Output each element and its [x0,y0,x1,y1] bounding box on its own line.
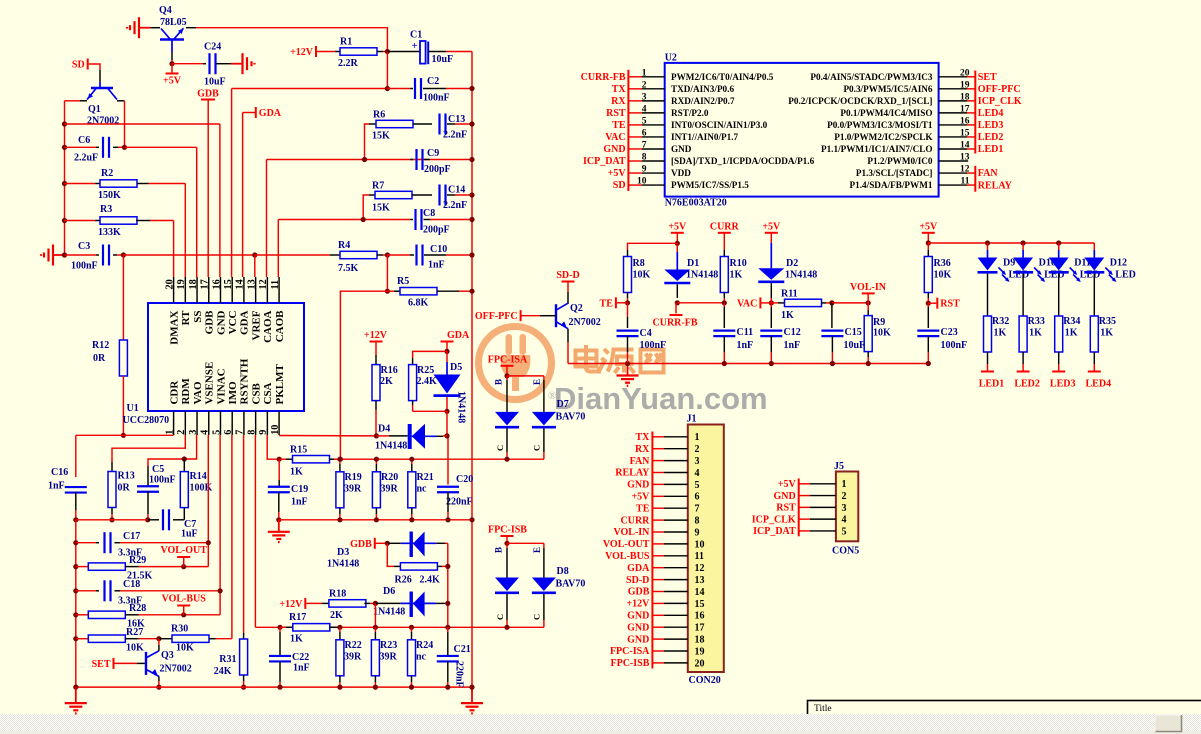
wire [377,254,383,256]
svg-text:GDA: GDA [627,563,650,574]
svg-text:+5V: +5V [608,168,627,179]
node [504,625,509,630]
svg-text:78L05: 78L05 [160,17,187,28]
svg-text:C18: C18 [123,579,140,590]
wire [151,27,161,29]
pin 16 LED3 [939,124,967,126]
svg-text:3: 3 [842,503,847,514]
node LED2 [1022,364,1024,372]
svg-text:1K: 1K [1065,328,1078,339]
pin 11 RELAY [939,184,967,186]
node [469,86,474,91]
svg-text:1nF: 1nF [428,260,445,271]
node [374,457,379,462]
node [469,217,474,222]
wire [125,146,197,148]
svg-text:LED2: LED2 [978,132,1004,143]
svg-text:10K: 10K [934,270,952,281]
svg-text:GND: GND [627,622,649,633]
svg-text:2: 2 [642,80,647,90]
svg-text:P0.2/ICPCK/OCDCK/RXD_1/[SCL]: P0.2/ICPCK/OCDCK/RXD_1/[SCL] [788,96,932,106]
svg-text:1N4148: 1N4148 [327,559,359,570]
pin 8 CSB [255,411,257,435]
wire R17 row [374,603,376,627]
node [73,685,78,690]
pin 18 SS [196,277,198,303]
pin 1 CURR-FB [628,76,642,78]
node [73,636,78,641]
svg-text:IMO: IMO [227,381,239,405]
svg-text:+5V: +5V [163,76,182,87]
svg-text:100nF: 100nF [640,340,667,351]
capacitor C19 1nF [278,459,280,480]
svg-text:7: 7 [235,430,246,435]
capacitor C16 1nF [65,486,87,488]
resistor R33 1K [1019,316,1027,352]
svg-text:2N7002: 2N7002 [87,116,119,127]
svg-text:1K: 1K [1100,328,1113,339]
svg-text:100K: 100K [190,483,213,494]
pin 20 SET [939,76,967,78]
wire gnd column 472 [471,52,473,688]
wire U2 left pin tick bar [627,70,629,191]
svg-text:VAC: VAC [737,298,757,309]
svg-text:7: 7 [642,140,647,150]
svg-text:E: E [532,379,542,385]
svg-text:100nF: 100nF [71,261,98,272]
capacitor C17 3.3nF [76,542,96,544]
svg-text:LED1: LED1 [979,379,1005,390]
wire pin6 IMO column [231,435,233,639]
svg-text:R24: R24 [416,640,433,651]
resistor R35 1K [1090,316,1098,352]
svg-text:10K: 10K [126,643,144,654]
svg-text:16: 16 [211,279,222,289]
resistor R10 1K [723,250,725,257]
svg-text:2.2uF: 2.2uF [74,153,98,164]
node [385,252,390,257]
LED D9 [985,240,990,245]
node [182,456,187,461]
svg-text:U1: U1 [127,403,139,414]
svg-text:20: 20 [164,279,175,289]
svg-text:2N7002: 2N7002 [569,317,601,328]
svg-text:N76E003AT20: N76E003AT20 [665,198,727,209]
wire pin11 column [277,220,279,278]
svg-text:TE: TE [600,298,614,309]
svg-text:U2: U2 [665,53,677,64]
svg-text:5: 5 [842,526,847,537]
ground [53,254,65,256]
svg-text:RT: RT [180,310,192,326]
svg-text:R12: R12 [92,340,109,351]
svg-text:1K: 1K [781,310,794,321]
node [62,121,67,126]
svg-text:GND: GND [627,634,649,645]
pin 9 CSA [266,411,268,435]
svg-text:19: 19 [960,80,970,90]
pin 12 FAN [939,172,967,174]
pin 14 LED1 [939,148,967,150]
svg-text:CURR-FB: CURR-FB [581,72,626,83]
svg-text:ICP_CLK: ICP_CLK [752,514,796,525]
node [409,517,414,522]
svg-text:10uF: 10uF [204,77,226,88]
pin 5 TE [628,124,642,126]
capacitor C24 [208,53,210,74]
node [722,300,727,305]
wire [443,435,447,437]
pin 2 TX [628,88,642,90]
diode D6 1N4148 [375,602,400,604]
svg-text:VOL-OUT: VOL-OUT [160,545,207,556]
node [206,540,211,545]
node LED4 [1093,364,1095,372]
svg-text:18: 18 [695,635,705,646]
wire [413,123,432,125]
wire [117,100,125,102]
svg-text:R36: R36 [934,258,951,269]
node [445,564,450,569]
svg-text:6: 6 [642,128,647,138]
svg-text:OFF-PFC: OFF-PFC [475,311,518,322]
svg-text:GDB: GDB [350,539,372,550]
title block [808,701,1201,734]
transistor Q2 2N7002 [555,304,557,327]
node [409,625,414,630]
svg-text:1: 1 [695,432,700,443]
capacitor C15 10uF [831,303,833,328]
svg-text:R4: R4 [338,240,350,251]
svg-text:R26: R26 [395,575,412,586]
wire [279,519,472,521]
node GDA [255,107,257,118]
node [73,612,78,617]
svg-text:VAO: VAO [192,381,204,404]
svg-text:18: 18 [188,279,199,289]
resistor R6 15K [365,124,370,160]
node [504,373,509,378]
wire [113,254,117,256]
node [769,361,774,366]
svg-text:TX: TX [635,432,650,443]
svg-text:6: 6 [695,492,700,503]
pin 13 SD-D [652,579,664,581]
node [444,409,449,414]
wire pin15 column [231,89,233,278]
svg-text:C15: C15 [845,327,862,338]
node [156,685,161,690]
svg-text:UCC28070: UCC28070 [123,415,170,426]
svg-text:15: 15 [223,279,234,289]
svg-text:133K: 133K [98,227,121,238]
svg-text:15K: 15K [372,203,390,214]
capacitor C21 220nF [447,627,449,632]
svg-text:VOL-IN: VOL-IN [850,282,887,293]
svg-text:R32: R32 [992,316,1009,327]
svg-text:15K: 15K [372,131,390,142]
svg-text:RELAY: RELAY [978,180,1013,191]
svg-text:P0.1/PWM4/IC4/MISO: P0.1/PWM4/IC4/MISO [840,108,932,118]
svg-text:10K: 10K [873,328,891,339]
node [241,685,246,690]
svg-text:39R: 39R [344,652,362,663]
svg-text:4: 4 [200,430,211,435]
resistor R27 10K [76,638,88,640]
node [926,240,931,245]
wire [65,220,96,222]
node [504,541,509,546]
wire pin20 column [173,221,175,278]
svg-text:SET: SET [978,72,997,83]
svg-text:VCC: VCC [227,310,239,334]
svg-text:P0.0/PWM3/IC3/MOSI/T1: P0.0/PWM3/IC3/MOSI/T1 [827,120,933,130]
node [73,564,78,569]
node [122,145,127,150]
pin 2 RX [652,448,664,450]
svg-text:GND: GND [773,491,795,502]
wire pin1 CDR row [76,434,174,436]
wire lower-left rail [75,520,77,687]
svg-text:CURR: CURR [710,221,740,232]
wire [65,254,97,256]
svg-text:17: 17 [695,623,705,634]
node RST [926,301,931,306]
wire pin8 CSB column [254,435,256,627]
svg-text:C3: C3 [78,241,90,252]
node [277,457,282,462]
svg-text:R1: R1 [340,37,352,48]
svg-text:6: 6 [223,430,234,435]
node OFF-PFC [520,310,522,321]
svg-text:nc: nc [417,484,428,495]
svg-text:20: 20 [695,658,705,669]
pin 4 VSENSE [208,411,210,435]
svg-text:R14: R14 [190,471,207,482]
node [277,625,282,630]
pin 7 RSYNTH [243,411,245,435]
resistor R34 1K [1055,316,1063,352]
svg-text:RST/P2.0: RST/P2.0 [671,108,709,118]
node [469,289,474,294]
pin 20 DMAX [173,277,175,303]
svg-text:2: 2 [842,491,847,502]
svg-text:+5V: +5V [919,221,938,232]
node [73,540,78,545]
resistor R4 7.5K [340,251,377,258]
svg-text:16: 16 [960,116,970,126]
pin 3 FAN [652,460,664,462]
pin 6 +5V [652,495,664,497]
svg-text:C2: C2 [427,76,439,87]
svg-text:VDD: VDD [671,168,691,178]
node [73,588,78,593]
connector J5 CON5 [836,472,858,542]
svg-text:C: C [532,614,542,620]
svg-text:1K: 1K [994,328,1007,339]
svg-text:LED2: LED2 [1014,379,1040,390]
svg-text:1nF: 1nF [291,497,308,508]
op-amp U1 UCC28070 [148,303,304,411]
svg-text:1K: 1K [290,467,303,478]
node [62,181,67,186]
pin 19 FPC-ISA [652,650,664,652]
svg-text:1nF: 1nF [293,663,310,674]
resistor R13 0R [111,462,113,472]
svg-text:R6: R6 [373,110,385,121]
svg-text:17: 17 [960,104,970,114]
resistor R9 10K [867,303,869,310]
resistor R31 24K [243,633,245,639]
svg-text:R11: R11 [781,289,798,300]
svg-text:LED3: LED3 [1050,379,1076,390]
node [121,433,126,438]
svg-text:TE: TE [612,120,626,131]
node [469,157,474,162]
wire pin7 RSYNTH column [243,435,245,633]
svg-text:RSYNTH: RSYNTH [239,358,251,404]
svg-text:C21: C21 [454,644,471,655]
IC U2 N76E003AT20 [665,63,939,197]
ground [627,364,629,376]
svg-text:SD-D: SD-D [556,270,579,281]
wire [172,63,203,65]
wire +5V LED rail [928,242,1094,244]
svg-text:CURR: CURR [621,515,651,526]
resistor R8 10K [627,250,629,257]
svg-text:D7: D7 [557,399,569,410]
node CURR-FB [675,300,680,305]
svg-text:5: 5 [211,430,222,435]
svg-text:R25: R25 [417,365,434,376]
node [373,685,378,690]
resistor R16 2K [372,365,380,401]
node [385,49,390,54]
svg-text:9: 9 [642,165,647,175]
resistor R2 150K [100,180,137,187]
svg-text:P1.0/PWM2/IC2/SPCLK: P1.0/PWM2/IC2/SPCLK [834,132,933,142]
node VAC [769,300,774,305]
svg-text:BAV70: BAV70 [556,412,586,423]
node [469,121,474,126]
watermark DianYuan logo [479,327,552,400]
svg-text:R13: R13 [118,471,135,482]
wire pin13 column [254,255,256,277]
svg-text:GND: GND [671,144,692,154]
svg-text:GDA: GDA [239,310,251,335]
svg-text:INT0/OSCIN/AIN1/P3.0: INT0/OSCIN/AIN1/P3.0 [671,120,768,130]
svg-text:nc: nc [416,652,427,663]
svg-text:DianYuan.com: DianYuan.com [554,381,768,416]
wire row 219 CAOB [278,219,410,221]
svg-text:LED4: LED4 [1086,379,1112,390]
pin 14 GDA [243,277,245,303]
svg-text:FAN: FAN [630,456,651,467]
pin 13 P1.2/PWM0/IC0 [939,160,969,162]
wire pin9 CSA column [267,435,279,459]
wire VCC row [232,88,388,90]
wire pin2 to R13 [112,435,185,462]
svg-text:8: 8 [695,516,700,527]
node LED3 [1058,364,1060,372]
svg-text:CAOB: CAOB [274,310,286,342]
svg-text:12: 12 [258,279,269,289]
svg-text:1K: 1K [1029,328,1042,339]
svg-text:2N7002: 2N7002 [160,664,192,675]
resistor R26 2.4K [387,543,394,566]
node [337,517,342,522]
wire R15 row [340,458,544,460]
svg-text:P1.1/PWM1/IC1/AIN7/CLO: P1.1/PWM1/IC1/AIN7/CLO [821,144,933,154]
svg-text:ICP_CLK: ICP_CLK [978,96,1022,107]
svg-text:R18: R18 [329,589,346,600]
node [445,685,450,690]
node VOL-IN [866,300,871,305]
svg-text:39R: 39R [381,484,399,495]
svg-text:J5: J5 [834,461,844,472]
svg-text:CON20: CON20 [689,675,721,686]
svg-text:C10: C10 [430,244,447,255]
svg-text:RXD/AIN2/P0.7: RXD/AIN2/P0.7 [671,96,735,106]
capacitor C22 1nF [279,627,281,632]
node +12V [315,46,317,57]
pin 8 CURR [652,519,664,521]
node [469,252,474,257]
svg-text:R34: R34 [1063,316,1080,327]
svg-text:FPC-ISB: FPC-ISB [610,658,649,669]
pin 16 GND [652,614,664,616]
svg-text:+12V: +12V [290,47,314,58]
capacitor C7 1uF [173,519,184,521]
svg-text:C8: C8 [423,208,435,219]
svg-text:C24: C24 [204,42,221,53]
svg-text:LED4: LED4 [978,108,1004,119]
wire J5 tick bar [798,479,800,537]
diode D5 1N4148 [446,351,448,362]
svg-text:220nF: 220nF [446,497,473,508]
svg-text:12: 12 [695,563,705,574]
svg-text:PWM2/IC6/T0/AIN4/P0.5: PWM2/IC6/T0/AIN4/P0.5 [671,72,774,82]
resistor R12 0R [122,255,124,340]
transistor Q1 2N7002 [91,87,113,89]
pin 4 RST [628,112,642,114]
pin 14 GDB [652,591,664,593]
svg-text:C11: C11 [737,327,754,338]
capacitor C10 1nF [387,254,410,256]
svg-text:9: 9 [258,430,269,435]
svg-text:1nF: 1nF [737,340,754,351]
svg-text:14: 14 [960,140,970,150]
svg-text:C9: C9 [427,148,439,159]
svg-text:+12V: +12V [626,599,650,610]
transistor Q4 78L05 [160,38,184,40]
svg-text:11: 11 [961,177,970,187]
svg-text:GDB: GDB [204,310,216,335]
wire [216,63,231,65]
svg-text:R30: R30 [171,624,188,635]
svg-text:6.8K: 6.8K [408,298,429,309]
svg-text:4: 4 [642,104,647,114]
svg-text:R22: R22 [345,640,362,651]
node [338,457,343,462]
wire [386,255,388,291]
pin 4 RELAY [652,472,664,474]
node [374,517,379,522]
node [829,300,834,305]
diode D1 1N4148 [676,243,678,252]
capacitor C12 1nF [770,303,772,307]
pin 20 FPC-ISB [652,662,664,664]
